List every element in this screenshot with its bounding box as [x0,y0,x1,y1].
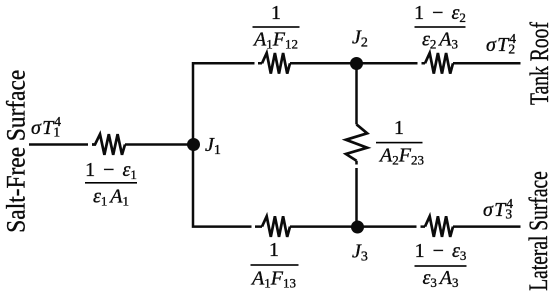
svg-text:Salt-Free Surface: Salt-Free Surface [2,70,30,233]
wire: from R2 to sigma-T2 terminal [453,62,521,65]
wire: from node J2 down to resistor R23 [355,63,358,124]
wire: from R1 to node J1 [125,143,193,146]
wire: from R3 to sigma-T3 terminal [453,225,521,228]
resistor R3 (surface resistance of lateral surface) [425,216,453,237]
svg-text:J1: J1 [205,134,221,158]
node J1 (junction dot) [187,138,200,151]
svg-text:σT41: σT41 [31,114,61,140]
resistor R13 (space resistance 1-3) [262,216,290,237]
value label (1-eps1)/(eps1 A1): fraction bar [85,182,137,184]
svg-text:1: 1 [271,2,281,24]
wire: from node J2 to resistor R2 [357,62,426,65]
value label (1-eps3)/(eps3 A3): fraction bar [415,265,467,267]
svg-text:A1F12: A1F12 [252,28,298,51]
svg-text:1 − ε1: 1 − ε1 [85,159,137,182]
svg-text:J2: J2 [352,27,368,51]
node J2 (junction dot) [350,57,363,70]
svg-text:Lateral Surface: Lateral Surface [524,171,550,291]
svg-text:1: 1 [394,117,404,139]
wire: from node J3 to resistor R3 [357,225,426,228]
resistor R1 (surface resistance of salt-free surface) [92,134,125,155]
svg-text:ε2A3: ε2A3 [422,28,458,51]
wire: from R12 to node J2 [290,62,357,65]
value label 1/(A1 F12): fraction bar [253,26,300,28]
svg-text:1: 1 [269,239,279,261]
wire: left lead from sigma-T1 node to resistor R1 [29,143,88,146]
svg-text:J3: J3 [352,241,368,265]
wire: vertical drop from J1 down to bottom branch, then to resistor R13 [193,145,262,227]
resistor R12 (space resistance 1-2) [262,53,290,74]
value label 1/(A2 F23): fraction bar [376,142,423,144]
resistor R2 (surface resistance of tank roof) [425,53,453,74]
svg-text:A2F23: A2F23 [378,145,424,168]
svg-text:1 − ε3: 1 − ε3 [415,240,467,263]
wire: from R23 down to node J3 [355,161,358,227]
svg-text:A1F13: A1F13 [250,268,296,291]
wire: vertical riser from J1 up to top branch, then to resistor R12 [193,63,262,144]
resistor R23 (space resistance 2-3, vertical) [346,124,367,160]
wire: from R13 to node J3 [290,225,357,228]
svg-text:σT43: σT43 [483,196,513,222]
svg-text:Tank Roof: Tank Roof [524,22,550,105]
svg-text:ε3A3: ε3A3 [423,267,459,290]
value label (1-eps2)/(eps2 A3): fraction bar [415,26,466,28]
value label 1/(A1 F13): fraction bar [251,264,299,266]
node J3 (junction dot) [351,221,364,234]
svg-text:ε1A1: ε1A1 [93,186,129,209]
svg-text:1 − ε2: 1 − ε2 [414,2,466,25]
svg-text:σT42: σT42 [486,31,516,57]
